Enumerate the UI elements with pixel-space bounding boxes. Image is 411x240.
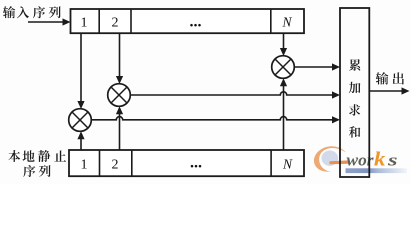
arrowhead into M3 top <box>280 48 287 56</box>
output arrowhead <box>402 87 410 94</box>
arrowhead into M2 bottom <box>116 106 123 114</box>
wire: M3 output to accumulator <box>294 66 333 68</box>
e-works logo: big e orange crescent <box>314 146 346 172</box>
svg-text:N: N <box>282 157 293 172</box>
accumulator label char 和 <box>349 126 360 138</box>
label 输出 (output) <box>376 72 389 84</box>
output wire <box>369 90 402 92</box>
wire: top cell N down to multiplier M3 <box>283 33 285 49</box>
bottom register cell divider 2|... <box>131 150 133 176</box>
bottom register cell divider 1|2 <box>99 150 101 176</box>
wire: top cell 2 down to multiplier M2 <box>119 33 121 77</box>
top register cell divider 2|... <box>130 9 132 33</box>
wire: bottom cell 2 up to multiplier M2 <box>119 113 121 151</box>
svg-text:N: N <box>281 15 292 30</box>
bottom register cell divider ...|N <box>270 150 272 176</box>
accumulator label char 求 <box>349 104 360 116</box>
accumulator label char 累 <box>349 59 360 71</box>
wire: bottom cell 1 up to multiplier M1 <box>80 138 82 151</box>
multiplier M2 <box>108 84 131 107</box>
arrowhead M2 into accumulator <box>332 91 340 98</box>
arrowhead M1 into accumulator <box>332 116 340 123</box>
e-works logo: big e inner fill <box>322 151 339 166</box>
e-works logo: e crossbar dash <box>330 160 350 164</box>
input shift register (top) <box>71 9 305 33</box>
svg-text:1: 1 <box>81 16 88 31</box>
wire: top cell 1 down to multiplier M1 <box>80 33 82 102</box>
svg-text:1: 1 <box>81 158 88 173</box>
arrowhead into M3 bottom <box>280 78 287 86</box>
label 本地静止 (local static) line 1 <box>8 150 20 162</box>
arrowhead into M1 bottom <box>77 131 84 139</box>
multiplier M1 <box>69 109 92 132</box>
svg-text:s: s <box>387 150 398 169</box>
wire: M1 output to accumulator (hops over cell2 and N wires) <box>91 117 333 120</box>
accumulator box 累加求和 <box>340 8 369 177</box>
arrowhead M3 into accumulator <box>332 63 340 70</box>
label 输入序列 (input sequence) <box>3 6 15 18</box>
multiplier M3 <box>272 56 295 79</box>
local reference register (bottom) <box>69 150 304 176</box>
input arrowhead <box>63 18 71 25</box>
arrowhead into M1 top <box>77 101 84 109</box>
svg-text:2: 2 <box>112 158 119 173</box>
wire: M2 output to accumulator (hops over N wire) <box>130 92 333 95</box>
wire: bottom cell N up to multiplier M3 <box>283 85 285 151</box>
svg-text:2: 2 <box>112 16 119 31</box>
accumulator label char 加 <box>349 82 361 94</box>
label 序列 line 2 <box>23 165 35 177</box>
svg-text:...: ... <box>190 154 202 171</box>
arrowhead into M2 top <box>116 76 123 84</box>
top register cell divider ...|N <box>270 9 272 33</box>
input arrow wire <box>28 21 64 23</box>
top register cell divider 1|2 <box>98 9 100 33</box>
svg-text:k: k <box>374 149 386 170</box>
svg-text:...: ... <box>190 13 202 30</box>
